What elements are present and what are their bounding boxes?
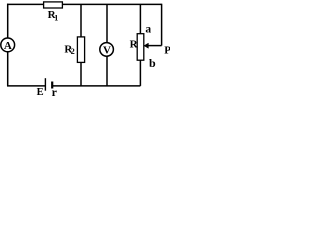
- svg-text:R: R: [130, 38, 139, 50]
- svg-text:b: b: [149, 56, 156, 70]
- wire bottom left (to battery): [7, 85, 45, 87]
- resistor R1: [44, 2, 63, 8]
- svg-text:V: V: [103, 44, 111, 56]
- battery cell E r: long plate: [44, 78, 46, 91]
- wire bottom right (battery to rheostat corner): [52, 85, 140, 87]
- rheostat R: [137, 34, 144, 61]
- svg-text:E: E: [37, 87, 44, 98]
- wire branch voltmeter: [106, 4, 108, 86]
- wiper wire P: [148, 45, 162, 47]
- ammeter A1: [1, 38, 15, 52]
- wire branch R2: [80, 4, 82, 86]
- wire top: [7, 3, 162, 5]
- svg-text:2: 2: [71, 47, 75, 56]
- svg-text:P: P: [164, 44, 170, 56]
- battery short plate: [51, 82, 53, 89]
- svg-text:A: A: [4, 40, 12, 52]
- wire right: [161, 4, 163, 46]
- svg-text:a: a: [145, 24, 151, 36]
- wire left: [7, 4, 9, 86]
- wire branch rheostat: [139, 4, 141, 86]
- resistor R2: [77, 37, 84, 63]
- svg-text:r: r: [52, 85, 58, 99]
- wiper arrowhead: [144, 43, 148, 48]
- voltmeter V1: [100, 43, 114, 57]
- svg-text:1: 1: [54, 14, 58, 23]
